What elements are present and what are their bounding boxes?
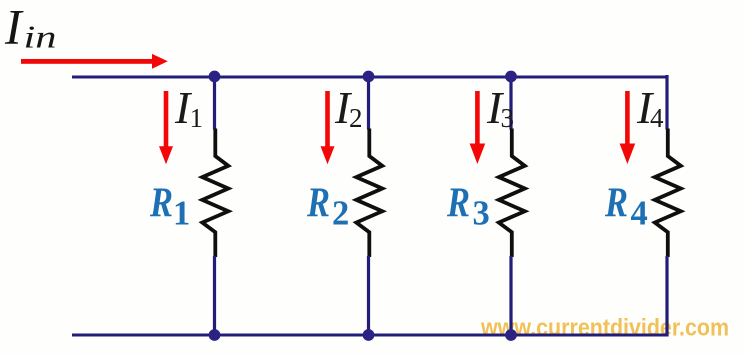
svg-text:www.currentdivider.com: www.currentdivider.com bbox=[480, 315, 729, 342]
wire branch1 bottom bbox=[213, 256, 216, 335]
svg-text:1: 1 bbox=[173, 194, 190, 232]
arrow Iin bbox=[21, 54, 168, 69]
label I1 bbox=[174, 82, 203, 133]
arrow I1 bbox=[159, 91, 173, 164]
node junction top 1 bbox=[209, 71, 221, 83]
node junction bottom 3 bbox=[505, 329, 517, 341]
label R3 bbox=[446, 180, 490, 233]
svg-text:R: R bbox=[306, 180, 330, 227]
resistor R4 bbox=[655, 129, 681, 258]
wire bottom bus bbox=[72, 334, 667, 337]
svg-text:in: in bbox=[24, 19, 57, 55]
wire branch3 top bbox=[509, 77, 512, 130]
svg-text:R: R bbox=[149, 180, 173, 227]
wire branch3 bottom bbox=[509, 256, 512, 335]
node junction top 2 bbox=[363, 71, 375, 83]
svg-text:R: R bbox=[446, 180, 470, 227]
label R4 bbox=[604, 180, 648, 233]
svg-text:1: 1 bbox=[190, 103, 204, 133]
resistor R1 bbox=[202, 129, 228, 258]
wire branch4 top bbox=[665, 75, 668, 130]
arrow I4 bbox=[620, 91, 636, 164]
label I2 bbox=[334, 82, 363, 133]
wire branch4 bottom bbox=[665, 256, 668, 337]
svg-text:4: 4 bbox=[631, 194, 648, 232]
svg-text:4: 4 bbox=[650, 103, 664, 133]
svg-text:3: 3 bbox=[501, 103, 515, 133]
wire branch2 top bbox=[367, 77, 370, 130]
svg-text:I: I bbox=[4, 0, 24, 54]
wire branch1 top bbox=[213, 77, 216, 130]
svg-text:R: R bbox=[604, 180, 628, 227]
node junction bottom 2 bbox=[363, 329, 375, 341]
resistor R2 bbox=[356, 129, 382, 258]
svg-text:2: 2 bbox=[349, 103, 363, 133]
svg-text:3: 3 bbox=[473, 194, 490, 232]
label I4 bbox=[636, 82, 664, 133]
node junction bottom 1 bbox=[209, 329, 221, 341]
svg-text:2: 2 bbox=[332, 194, 349, 232]
label Iin bbox=[4, 0, 57, 55]
wire top bus bbox=[72, 76, 667, 79]
resistor R3 bbox=[499, 129, 525, 258]
label R1 bbox=[149, 180, 190, 233]
node junction top 3 bbox=[505, 71, 517, 83]
arrow I3 bbox=[470, 91, 486, 164]
wire branch2 bottom bbox=[367, 256, 370, 335]
arrow I2 bbox=[321, 91, 335, 164]
label I3 bbox=[486, 82, 514, 133]
label R2 bbox=[306, 180, 349, 233]
